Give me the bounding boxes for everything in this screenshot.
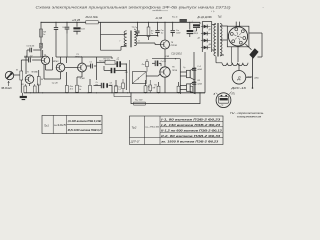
svg-text:R6: R6 [41, 79, 43, 81]
svg-text:ГН - переключатель: ГН - переключатель [230, 111, 264, 115]
svg-text:II-1,2 по 600 витков ПЭВ-2 Ф0,: II-1,2 по 600 витков ПЭВ-2 Ф0,13 [161, 128, 222, 132]
svg-text:Сд: Сд [96, 81, 98, 84]
svg-text:Д: Д [236, 75, 240, 80]
svg-text:I-2, 130 витков ПЭВ-2 Ф0,23: I-2, 130 витков ПЭВ-2 Ф0,23 [161, 123, 221, 127]
svg-text:з: з [262, 7, 264, 9]
svg-text:п2хВ: п2хВ [197, 83, 202, 85]
svg-text:Д2: Д2 [208, 29, 211, 31]
svg-text:Т1: Т1 [27, 72, 29, 74]
svg-text:200,0: 200,0 [193, 33, 198, 35]
svg-text:Rп: Rп [151, 31, 153, 33]
svg-text:Rш 100: Rш 100 [135, 100, 143, 102]
svg-text:Тр2: Тр2 [132, 126, 137, 130]
svg-text:2к: 2к [78, 89, 81, 91]
svg-text:П213Б: П213Б [171, 45, 178, 47]
svg-text:I-1, 80 витков ПЭВ-2 Ф0,23: I-1, 80 витков ПЭВ-2 Ф0,23 [161, 118, 221, 122]
svg-text:Д3: Д3 [197, 37, 200, 39]
svg-text:Т2: Т2 [44, 54, 46, 56]
svg-text:ДЛ7-1Г: ДЛ7-1Г [130, 139, 140, 143]
svg-text:Схема электрическая принципи: Схема электрическая принципиальная элект… [36, 5, 232, 9]
svg-text:-21В: -21В [164, 56, 169, 58]
svg-text:1к: 1к [151, 33, 153, 35]
svg-text:(П): (П) [232, 94, 235, 96]
svg-text:Тр1: Тр1 [44, 123, 49, 127]
svg-text:1,0: 1,0 [118, 89, 121, 91]
svg-text:МП39Б: МП39Б [32, 72, 39, 74]
svg-text:I,II-100 витков ПЭВ 0,41В: I,II-100 витков ПЭВ 0,41В [68, 119, 101, 123]
svg-text:напряжения: напряжения [237, 115, 262, 118]
svg-text:III,IV-1000 витков ПЭВ 0,2: III,IV-1000 витков ПЭВ 0,2 [68, 128, 101, 132]
svg-text:Rт: Rт [142, 64, 145, 66]
svg-text:Rк: Rк [148, 87, 150, 89]
svg-text:R3: R3 [22, 84, 24, 86]
svg-text:Ср: Ср [135, 27, 137, 29]
svg-text:П214: П214 [172, 69, 178, 72]
svg-text:5000: 5000 [176, 33, 180, 35]
svg-text:4,7к: 4,7к [70, 87, 73, 90]
svg-text:220в: 220в [253, 78, 259, 80]
svg-text:ш10х5: ш10х5 [54, 124, 66, 127]
svg-text:Ср 20: Ср 20 [52, 82, 59, 84]
svg-text:С9: С9 [110, 82, 112, 84]
svg-text:Сг 0,1: Сг 0,1 [161, 61, 166, 63]
svg-text:Rб 5,1к: Rб 5,1к [104, 58, 112, 60]
svg-text:Д4: Д4 [208, 43, 211, 46]
svg-text:Д1-Д4 Д226Б: Д1-Д4 Д226Б [197, 16, 213, 19]
svg-text:Rш 1к: Rш 1к [172, 17, 178, 19]
svg-text:С3 0,05: С3 0,05 [27, 45, 35, 47]
svg-text:С+1: С+1 [197, 66, 201, 68]
svg-text:Д1: Д1 [197, 26, 200, 28]
svg-text:Сб: Сб [117, 59, 119, 61]
svg-text:Тр2: Тр2 [218, 15, 223, 18]
svg-text:II-2, 80 витков ПЭВ-2 Ф0,33: II-2, 80 витков ПЭВ-2 Ф0,33 [161, 134, 221, 138]
svg-text:0,1: 0,1 [161, 33, 164, 35]
svg-text:д Тр: д Тр [211, 10, 215, 13]
svg-text:ДКС-16: ДКС-16 [230, 86, 246, 90]
svg-text:-1,4В: -1,4В [80, 77, 86, 80]
svg-text:п2хВ: п2хВ [197, 69, 202, 71]
svg-text:С16 200,0: С16 200,0 [171, 53, 182, 55]
svg-text:МП40: МП40 [53, 60, 59, 63]
svg-text:R14 30к: R14 30к [86, 16, 100, 19]
svg-text:эк. 1930 II витков ПЭВ-2 Ф0,23: эк. 1930 II витков ПЭВ-2 Ф0,23 [161, 139, 219, 143]
svg-text:ш-У6х16: ш-У6х16 [145, 127, 160, 129]
svg-text:-21,6В: -21,6В [155, 17, 163, 20]
svg-text:ЗВ-Мэмб: ЗВ-Мэмб [1, 87, 12, 90]
svg-text:+24,2В: +24,2В [72, 18, 81, 22]
svg-text:Сп: Сп [90, 62, 92, 64]
svg-text:300: 300 [95, 84, 98, 86]
svg-text:R1: R1 [16, 69, 18, 71]
svg-text:эл.ЭФ-6Б: эл.ЭФ-6Б [153, 9, 162, 12]
svg-text:4: 4 [154, 86, 155, 89]
svg-text:10,0: 10,0 [81, 29, 85, 31]
svg-text:Сm: Сm [118, 87, 121, 89]
